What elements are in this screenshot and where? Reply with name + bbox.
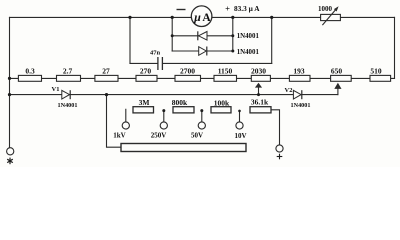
node divider top bbox=[105, 93, 108, 96]
node rail2 right bbox=[231, 50, 234, 53]
node cap-right bbox=[270, 16, 273, 19]
node rail1 left bbox=[171, 34, 174, 37]
wire divider vertical bbox=[107, 95, 122, 148]
node second rail left bbox=[8, 93, 11, 96]
capacitor C1 47n bbox=[150, 50, 162, 71]
node 50V tap bbox=[200, 109, 203, 112]
resistor R7 2030 bbox=[251, 67, 270, 82]
svg-text:1N4001: 1N4001 bbox=[237, 49, 260, 56]
node diode-right top bbox=[231, 16, 234, 19]
svg-text:27: 27 bbox=[102, 67, 110, 76]
svg-text:1N4001: 1N4001 bbox=[291, 102, 311, 109]
svg-text:47n: 47n bbox=[150, 50, 161, 57]
svg-text:800k: 800k bbox=[172, 98, 188, 107]
svg-text:270: 270 bbox=[140, 67, 152, 76]
wire left vertical bbox=[9, 17, 11, 147]
resistor R10 510 bbox=[370, 67, 391, 82]
svg-text:1N4001: 1N4001 bbox=[237, 33, 260, 40]
svg-text:36.1k: 36.1k bbox=[251, 98, 269, 107]
resistor R2 2.7 bbox=[57, 67, 81, 82]
node rail1 right bbox=[231, 34, 234, 37]
bus bar bbox=[121, 144, 246, 152]
svg-text:1150: 1150 bbox=[218, 67, 233, 76]
svg-text:1kV: 1kV bbox=[113, 132, 125, 140]
wire tap arrow stem R9 bbox=[337, 89, 339, 95]
terminal plus bbox=[276, 145, 283, 159]
svg-text:+: + bbox=[225, 4, 230, 14]
wire second rail bbox=[10, 94, 338, 96]
resistor R14 36.1k bbox=[250, 98, 271, 113]
wire capacitor branch left vertical bbox=[129, 17, 131, 63]
node main row left bbox=[8, 77, 11, 80]
wire stub 1kV bbox=[125, 109, 127, 122]
resistor R5 2700 bbox=[175, 67, 201, 82]
node 250V tap bbox=[162, 109, 165, 112]
terminal 10V bbox=[234, 122, 246, 140]
wire diode block right vertical bbox=[232, 17, 234, 51]
svg-text:2030: 2030 bbox=[251, 67, 266, 76]
tap arrow on R9 bbox=[334, 83, 341, 89]
svg-text:2700: 2700 bbox=[180, 67, 195, 76]
svg-text:83.3 µ A: 83.3 µ A bbox=[234, 4, 260, 13]
svg-text:0.3: 0.3 bbox=[25, 67, 35, 76]
svg-text:3M: 3M bbox=[139, 98, 150, 107]
wire capacitor branch right vertical bbox=[271, 17, 273, 63]
resistor R11 3M bbox=[133, 98, 154, 113]
meter M1 microammeter bbox=[191, 6, 212, 27]
svg-text:50V: 50V bbox=[191, 132, 203, 140]
resistor R8 193 bbox=[289, 67, 310, 82]
resistor R1 0.3 bbox=[18, 67, 41, 82]
terminal common bbox=[7, 148, 14, 165]
label plus 83.3uA bbox=[225, 4, 260, 14]
svg-text:10V: 10V bbox=[234, 132, 246, 140]
svg-text:V2: V2 bbox=[285, 87, 293, 94]
wire right vertical bbox=[394, 17, 396, 78]
svg-text:1N4001: 1N4001 bbox=[58, 102, 78, 109]
node tap R7 bbox=[257, 93, 260, 96]
resistor R9 650 bbox=[331, 67, 352, 82]
resistor R13 100k bbox=[211, 99, 231, 113]
node 10V tap bbox=[238, 110, 241, 113]
svg-text:µ: µ bbox=[193, 10, 201, 24]
diode V2 1N4001 bbox=[285, 87, 311, 109]
svg-text:193: 193 bbox=[293, 67, 305, 76]
svg-text:A: A bbox=[202, 12, 211, 24]
wire top right bbox=[212, 16, 395, 18]
wire stub 50V bbox=[201, 110, 203, 122]
wire diode rail 2 bbox=[172, 50, 233, 52]
node cap-left bbox=[128, 16, 131, 19]
wire tap arrow stem R7 bbox=[258, 87, 260, 95]
svg-text:2.7: 2.7 bbox=[63, 67, 73, 76]
terminal 250V bbox=[151, 122, 168, 140]
diode V1 1N4001 bbox=[52, 86, 78, 109]
svg-text:V1: V1 bbox=[52, 86, 60, 93]
wire diode block left vertical bbox=[171, 17, 173, 51]
resistor R3 27 bbox=[95, 67, 118, 82]
resistor R4 270 bbox=[136, 67, 157, 82]
node diode-left bbox=[171, 16, 174, 19]
wire diode rail 1 bbox=[172, 35, 233, 37]
label minus bbox=[177, 9, 186, 11]
wire stub 10V bbox=[239, 111, 241, 122]
terminal 50V bbox=[191, 122, 205, 140]
wire top left bbox=[10, 16, 192, 18]
terminal 1kV bbox=[113, 122, 129, 140]
wire to plus terminal bbox=[271, 110, 280, 145]
wire stub 250V bbox=[163, 110, 165, 122]
svg-text:100k: 100k bbox=[214, 99, 230, 108]
svg-text:650: 650 bbox=[331, 67, 343, 76]
svg-text:510: 510 bbox=[370, 67, 382, 76]
svg-text:250V: 250V bbox=[151, 132, 167, 140]
potentiometer RP 1000 bbox=[318, 5, 340, 25]
resistor R12 800k bbox=[172, 98, 194, 113]
diode D2 1N4001 bbox=[199, 47, 260, 56]
tap arrow on R7 bbox=[255, 83, 262, 88]
resistor R6 1150 bbox=[214, 67, 237, 82]
svg-text:1000: 1000 bbox=[318, 5, 333, 13]
diode D1 1N4001 bbox=[198, 31, 260, 40]
wire capacitor branch horizontal bbox=[130, 62, 158, 64]
wire main resistor row bbox=[10, 77, 395, 79]
